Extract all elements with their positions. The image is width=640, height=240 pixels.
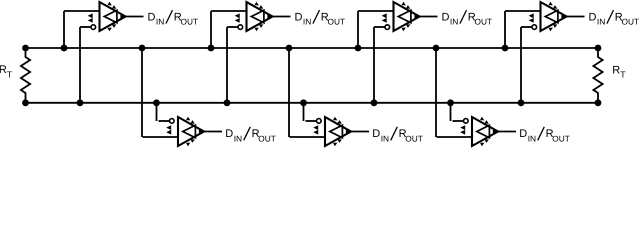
svg-text:OUT: OUT <box>328 17 346 27</box>
svg-text:D: D <box>372 128 380 140</box>
svg-text:D: D <box>442 11 450 23</box>
svg-text:IN: IN <box>234 133 242 143</box>
svg-text:IN: IN <box>156 17 164 27</box>
svg-text:OUT: OUT <box>552 133 570 143</box>
svg-text:OUT: OUT <box>405 133 423 143</box>
svg-text:IN: IN <box>597 17 605 27</box>
svg-text:D: D <box>295 11 303 23</box>
svg-text:IN: IN <box>450 17 458 27</box>
svg-text:OUT: OUT <box>181 17 199 27</box>
svg-text:T: T <box>7 69 13 79</box>
svg-text:R: R <box>612 64 620 76</box>
svg-text:IN: IN <box>381 133 389 143</box>
svg-text:OUT: OUT <box>475 17 493 27</box>
svg-text:D: D <box>225 128 233 140</box>
svg-text:OUT: OUT <box>258 133 276 143</box>
svg-text:T: T <box>620 70 626 80</box>
svg-text:R: R <box>0 64 7 76</box>
svg-text:OUT: OUT <box>622 17 640 27</box>
svg-text:IN: IN <box>528 133 536 143</box>
svg-text:D: D <box>519 128 527 140</box>
svg-text:D: D <box>148 11 156 23</box>
svg-text:D: D <box>589 11 597 23</box>
svg-text:IN: IN <box>303 17 311 27</box>
